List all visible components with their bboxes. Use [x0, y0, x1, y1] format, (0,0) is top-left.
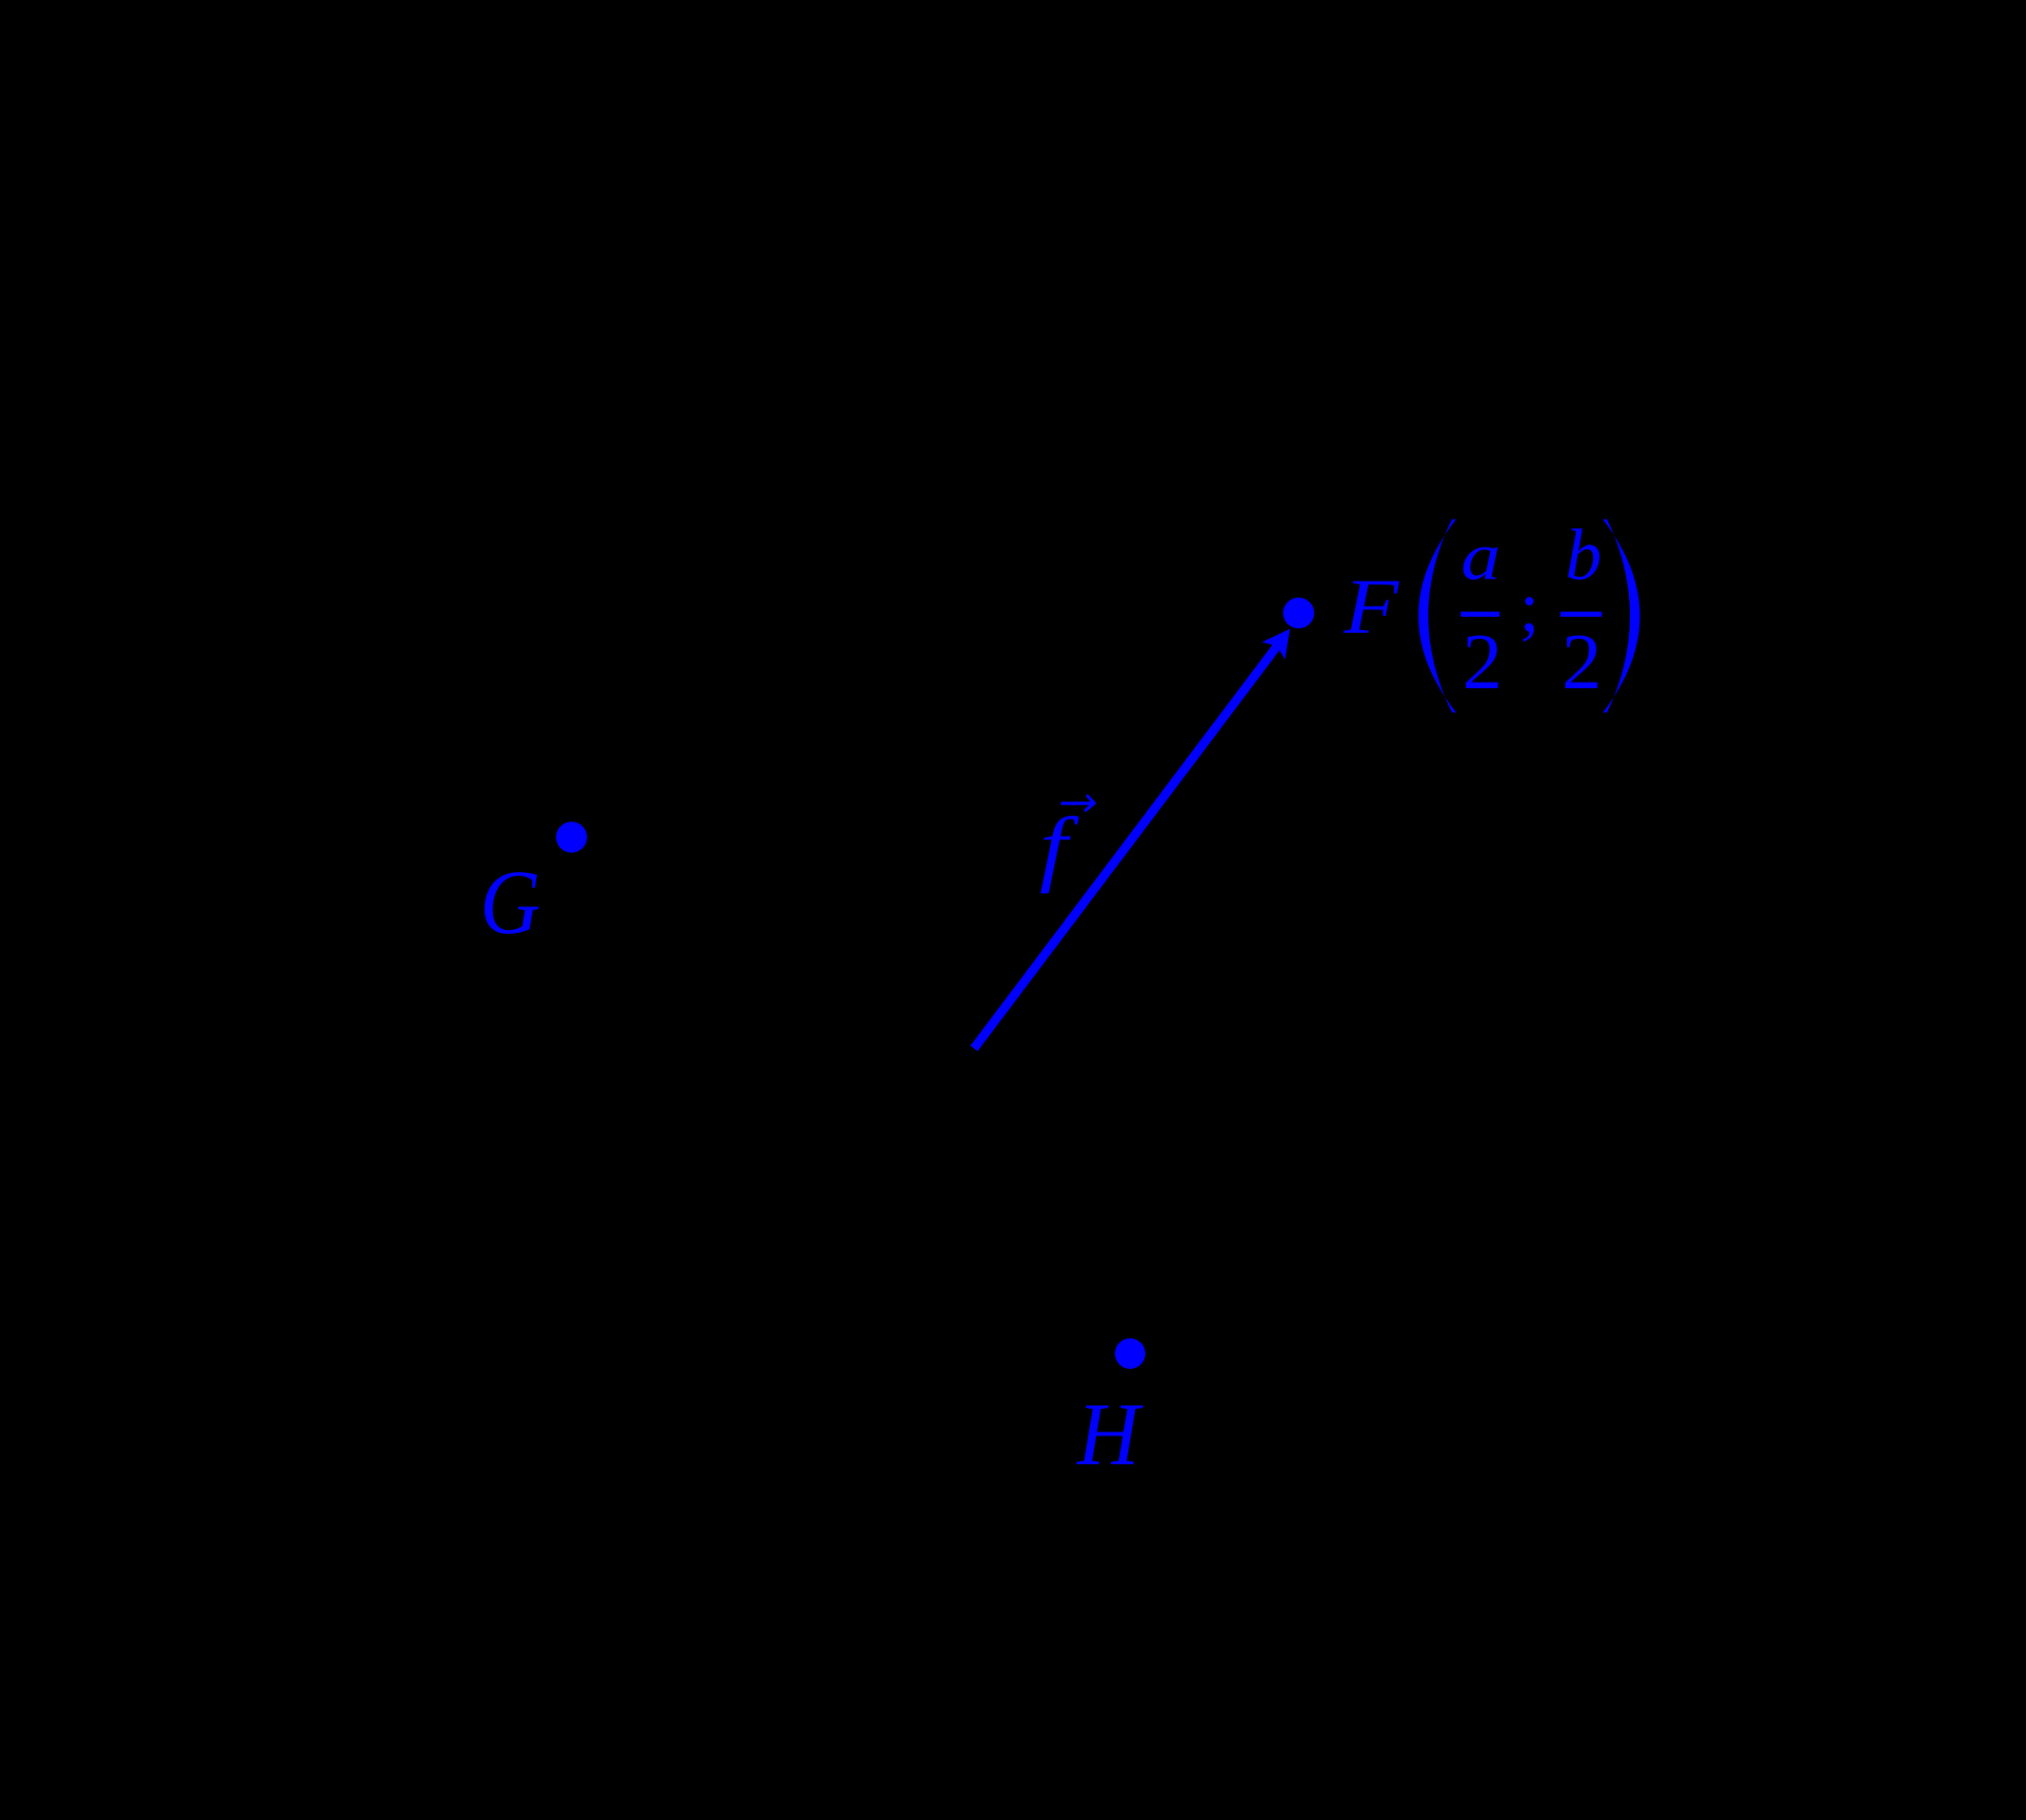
svg-text:a: a [1461, 521, 1501, 595]
fraction bar 1 [1460, 612, 1500, 617]
svg-text:2: 2 [1561, 618, 1601, 706]
svg-text:b: b [1565, 514, 1601, 595]
vector f arrowhead [1261, 629, 1290, 660]
svg-text:F: F [1342, 563, 1400, 650]
svg-text:f: f [1040, 801, 1080, 895]
vector f shaft [974, 638, 1283, 1048]
svg-text:G: G [480, 851, 541, 953]
svg-text:2: 2 [1462, 618, 1502, 706]
fraction bar 2 [1560, 612, 1602, 617]
left paren [1419, 520, 1457, 713]
svg-text:H: H [1076, 1385, 1144, 1484]
svg-text:;: ; [1519, 567, 1539, 646]
right paren [1603, 520, 1640, 713]
point F dot [1283, 598, 1315, 629]
point G dot [556, 821, 587, 853]
point H dot [1115, 1338, 1145, 1369]
arrow over f [1061, 801, 1092, 804]
